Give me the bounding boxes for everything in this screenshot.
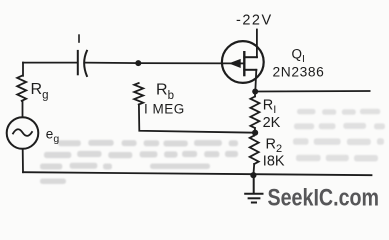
wire gate junction to transistor gate [138,62,230,64]
transistor Q1 source lead inside [244,69,256,71]
wire capacitor to gate junction [85,62,139,65]
transistor Q1 channel bar [243,52,245,75]
transistor Q1 gate lead to bar [240,62,245,64]
resistor Rb [134,83,143,105]
node: gate / Rb junction [135,60,141,66]
resistor Rg [17,76,26,101]
wire top-left horizontal (node A to capacitor) [23,62,78,64]
transistor Q1 drain lead inside [244,56,257,58]
capacitor C1 plates [77,51,79,74]
capacitor value label 1 [78,34,80,43]
wire output node to right edge [255,90,369,93]
ghost print bleed-through right [293,109,385,162]
svg-text:I8K: I8K [263,153,285,169]
wire R1 top lead [254,92,256,97]
svg-text:-22V: -22V [236,12,273,28]
wire eg source bottom to rail [22,149,24,172]
resistor R2 [250,136,259,165]
transistor Q1 circle [222,41,264,83]
wire left vertical: top corner down to Rg [22,63,24,76]
wire Rb bottom lead and horizontal to R1/R2 junction [139,105,255,133]
resistor R1 [250,97,259,129]
wire R2 bottom lead to rail [252,164,255,175]
wire R2 top lead [253,133,256,136]
wire Rg to eg source top [22,101,24,117]
node: R1 / R2 / Rb junction [252,130,258,136]
transistor Q1 gate arrow [230,59,240,67]
node: source / R1 output junction [252,89,258,95]
wire source lead from Q1 down to output node [254,70,257,92]
ground symbol [244,175,263,202]
svg-text:SeekIC.com: SeekIC.com [268,184,380,211]
wire bottom rail [23,172,372,175]
source eg sine wave [13,129,32,136]
node: R2 / ground rail junction [250,172,256,178]
svg-text:2K: 2K [263,115,281,131]
wire drain lead from -22V down into Q1 [256,30,258,58]
source eg circle [7,117,39,149]
svg-text:I MEG: I MEG [144,102,185,117]
wire R1 bottom lead [254,128,256,133]
svg-text:2N2386: 2N2386 [273,65,325,80]
ghost print bleed-through bottom-left [40,140,238,184]
